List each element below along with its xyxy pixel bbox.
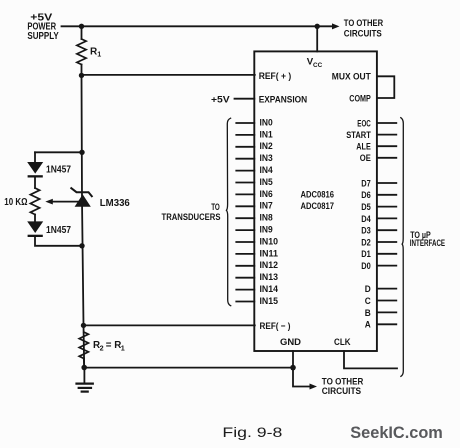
- pin EXPANSION: [235, 98, 255, 100]
- svg-text:D: D: [365, 283, 371, 294]
- value label 1N457 (upper): [46, 164, 71, 175]
- svg-text:CIRCUITS: CIRCUITS: [344, 28, 382, 39]
- svg-text:IN13: IN13: [260, 271, 279, 282]
- svg-text:IN15: IN15: [260, 295, 279, 306]
- arrow to other circuits (bottom): [293, 368, 317, 390]
- svg-text:D1: D1: [361, 248, 371, 259]
- pin ALE: [377, 145, 396, 147]
- junction left branch bottom: [79, 243, 84, 248]
- junction R2 bottom / ground: [81, 365, 87, 371]
- pin C: [377, 300, 396, 302]
- pin D5: [377, 206, 396, 208]
- pin D4: [377, 217, 396, 219]
- svg-text:D3: D3: [361, 225, 371, 236]
- svg-text:IN10: IN10: [260, 235, 279, 246]
- svg-text:2: 2: [100, 343, 104, 352]
- svg-text:SUPPLY: SUPPLY: [27, 31, 59, 42]
- svg-text:MUX OUT: MUX OUT: [332, 71, 371, 82]
- ground: [77, 368, 93, 392]
- pin A: [377, 323, 396, 325]
- svg-text:D6: D6: [361, 189, 371, 200]
- pin IN3: [236, 158, 254, 160]
- resistor R1: [77, 26, 86, 75]
- pin OE: [377, 157, 396, 159]
- svg-text:IN2: IN2: [260, 140, 273, 151]
- pin D7: [377, 182, 396, 184]
- watermark SeekIC.com: [350, 423, 443, 442]
- pin EOC: [377, 122, 396, 124]
- svg-text:IN3: IN3: [260, 152, 273, 163]
- pin IN7: [236, 205, 254, 207]
- caption Fig. 9-8: [222, 425, 282, 440]
- pin IN4: [236, 170, 254, 172]
- svg-text:B: B: [365, 307, 371, 318]
- pin IN10: [236, 241, 254, 243]
- svg-text:IN5: IN5: [260, 176, 273, 187]
- svg-text:1N457: 1N457: [46, 225, 71, 236]
- svg-text:LM336: LM336: [100, 198, 130, 209]
- pin D0: [377, 265, 396, 267]
- pin IN1: [236, 134, 254, 136]
- junction at Vcc branch: [315, 24, 320, 29]
- svg-text:REF( − ): REF( − ): [260, 320, 291, 331]
- pin IN15: [236, 301, 254, 303]
- svg-text:EOC: EOC: [357, 117, 371, 128]
- wire GND pin down: [292, 351, 294, 368]
- svg-text:IN4: IN4: [260, 164, 274, 175]
- svg-text:D4: D4: [361, 213, 371, 224]
- brace for microprocessor bus: [401, 118, 404, 377]
- svg-text:IN14: IN14: [260, 283, 279, 294]
- potentiometer 10 K ohm: [30, 188, 39, 215]
- wire to REF(-): [84, 324, 255, 326]
- junction GND node: [290, 365, 296, 371]
- pin D1: [377, 253, 396, 255]
- junction left branch top: [79, 150, 84, 155]
- resistor R2: [79, 332, 88, 368]
- pin IN11: [236, 253, 254, 255]
- svg-text:IN9: IN9: [260, 224, 273, 235]
- pin REF(+): [259, 70, 292, 81]
- value label R2 = R1: [93, 340, 125, 352]
- svg-text:CLK: CLK: [334, 336, 351, 347]
- svg-text:ALE: ALE: [356, 141, 371, 152]
- pin IN9: [236, 229, 254, 231]
- svg-text:D7: D7: [361, 177, 371, 188]
- svg-text:IN8: IN8: [260, 212, 273, 223]
- svg-text:IN11: IN11: [260, 247, 279, 258]
- pin IN12: [236, 265, 254, 267]
- pin B: [377, 311, 396, 313]
- label TO TRANSDUCERS: [162, 201, 221, 222]
- pin Vcc label: [307, 56, 322, 69]
- pin D2: [377, 241, 396, 243]
- svg-text:A: A: [365, 319, 371, 330]
- pin GND label: [280, 336, 301, 347]
- svg-text:GND: GND: [280, 336, 301, 347]
- svg-text:IN7: IN7: [260, 200, 273, 211]
- pin START: [377, 134, 396, 136]
- value label R1: [90, 47, 101, 59]
- pin IN13: [236, 277, 254, 279]
- pin IN8: [236, 217, 254, 219]
- diode D1 1N457: [27, 162, 43, 178]
- wire +5V supply rail (top horizontal): [62, 25, 318, 27]
- label TO OTHER CIRCUITS (top): [344, 17, 383, 38]
- wire MUX OUT to COMP loop: [377, 76, 394, 98]
- svg-text:CIRCUITS: CIRCUITS: [322, 385, 361, 396]
- svg-text:C: C: [365, 295, 371, 306]
- reference diode LM336: [71, 188, 92, 207]
- svg-text:Fig. 9-8: Fig. 9-8: [222, 425, 282, 440]
- svg-text:OE: OE: [360, 152, 371, 163]
- wire main left vertical rail: [82, 75, 85, 367]
- svg-text:IN6: IN6: [260, 188, 273, 199]
- svg-text:1N457: 1N457: [46, 164, 71, 175]
- pin CLK label: [334, 336, 351, 347]
- svg-text:CC: CC: [313, 62, 322, 69]
- pin IN5: [236, 182, 254, 184]
- wire D1 to potentiometer: [34, 178, 36, 189]
- wire Vcc feed into IC: [316, 26, 318, 51]
- wire left branch top: [35, 151, 82, 153]
- diode D2 1N457: [27, 221, 43, 237]
- svg-text:IN1: IN1: [260, 128, 273, 139]
- svg-text:D0: D0: [361, 260, 371, 271]
- pin IN0: [236, 122, 254, 124]
- pin IN6: [236, 193, 254, 195]
- pin D3: [377, 229, 396, 231]
- wire CLK output: [344, 351, 397, 368]
- value label LM336: [100, 198, 130, 209]
- svg-text:START: START: [346, 129, 371, 140]
- pin D: [377, 288, 396, 290]
- svg-text:ADC0816: ADC0816: [301, 189, 335, 200]
- svg-text:INTERFACE: INTERFACE: [410, 237, 445, 248]
- label TO OTHER CIRCUITS (bottom): [322, 375, 364, 396]
- brace for transducer inputs: [226, 118, 230, 306]
- svg-text:D2: D2: [361, 236, 371, 247]
- svg-text:REF( + ): REF( + ): [259, 70, 292, 81]
- svg-text:D5: D5: [361, 201, 371, 212]
- node +5V at EXPANSION: [211, 93, 231, 104]
- svg-text:+5V: +5V: [211, 93, 231, 104]
- part number label ADC0816 ADC0817: [301, 189, 335, 211]
- svg-text:SeekIC.com: SeekIC.com: [350, 423, 443, 442]
- wire bottom rail to GND pin: [84, 367, 293, 369]
- wire left branch bottom: [35, 237, 82, 246]
- value label 1N457 (lower): [46, 225, 71, 236]
- wiper arrow from LM336 node: [45, 199, 80, 205]
- wire diode branch upper lead: [34, 152, 36, 162]
- svg-text:=: =: [106, 340, 112, 351]
- arrow to other circuits (top): [317, 23, 339, 29]
- svg-text:COMP: COMP: [349, 92, 371, 103]
- svg-text:IN12: IN12: [260, 259, 279, 270]
- pin D6: [377, 194, 396, 196]
- svg-text:EXPANSION: EXPANSION: [259, 93, 308, 104]
- wire to REF(+): [82, 74, 255, 76]
- junction at R1 top: [79, 24, 84, 29]
- pin IN2: [236, 146, 254, 148]
- svg-text:1: 1: [121, 343, 125, 352]
- svg-text:ADC0817: ADC0817: [301, 200, 335, 211]
- svg-text:10 KΩ: 10 KΩ: [4, 197, 27, 208]
- pin IN14: [236, 289, 254, 291]
- svg-text:1: 1: [97, 49, 101, 58]
- pin COMP: [349, 92, 371, 103]
- svg-text:IN0: IN0: [260, 116, 273, 127]
- op-amp/ADC IC U1 ADC0816/ADC0817 box: [254, 51, 377, 351]
- svg-text:TRANSDUCERS: TRANSDUCERS: [162, 211, 221, 222]
- pin REF(-): [260, 320, 291, 331]
- junction R2 top / REF(-): [81, 323, 86, 328]
- wire pot to D2: [34, 215, 36, 222]
- label TO uP INTERFACE: [410, 229, 445, 248]
- junction R1 bottom / REF(+): [79, 73, 84, 78]
- node +5V power supply label: [27, 12, 59, 42]
- value label 10 K ohm: [4, 197, 27, 208]
- pin MUX OUT: [332, 71, 371, 82]
